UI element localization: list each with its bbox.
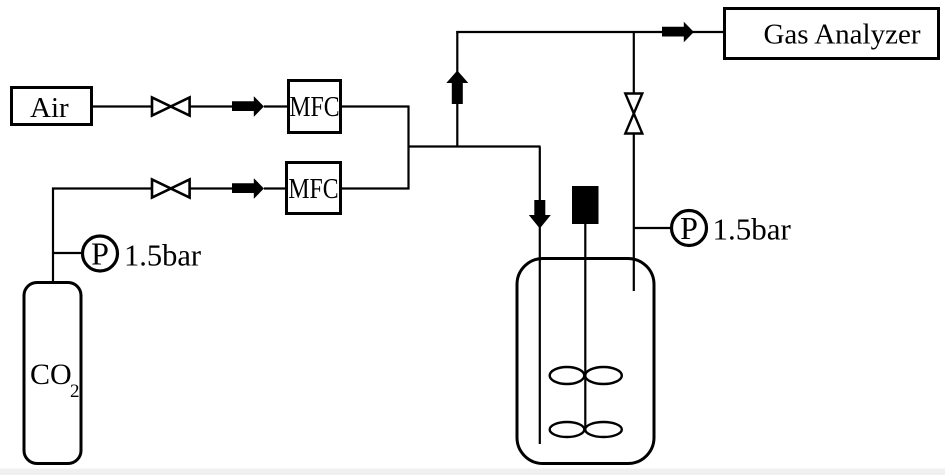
svg-text:MFC: MFC [289,91,339,122]
wire CO2 cylinder up [52,188,54,283]
valve V1 (air line) [152,98,190,116]
impeller upper [550,367,585,384]
flow arrow A5 (down, black) [529,200,551,229]
Air source box [12,88,92,125]
svg-text:1.5bar: 1.5bar [124,239,201,273]
valve V2 (CO2 line) [152,180,190,198]
pressure gauge P1 [83,236,118,271]
flow arrow A2 (black) [232,178,264,199]
wire A2 to MFC2 [264,187,287,189]
svg-text:Gas Analyzer: Gas Analyzer [763,19,920,51]
flow arrow A4 (up, black) [446,71,468,105]
svg-text:MFC: MFC [288,173,338,204]
junction vertical segment [407,106,409,190]
wire V1 to arrow A1 [190,105,234,107]
pressure gauge P1 connector [53,252,82,254]
stirrer shaft [584,224,586,430]
wire A1 to MFC1 [264,105,287,107]
reactor vessel [517,259,654,464]
sample line from header down [633,32,635,94]
svg-text:Air: Air [30,92,69,124]
valve V3 (vertical, sample line) [625,94,642,134]
analyzer header line [456,31,723,33]
pressure gauge P2 connector [634,227,671,229]
svg-text:P: P [680,210,698,246]
gas inlet dip tube [539,147,541,445]
wire MFC2 to junction [341,187,410,189]
wire Air to valve V1 [92,105,153,107]
junction horizontal line to reactor inlet [409,145,541,147]
stirrer motor (black block) [572,186,599,224]
wire CO2 horizontal to valve V2 [52,187,152,189]
flow arrow A1 (black) [232,96,264,117]
pressure gauge P2 [672,211,707,246]
wire MFC1 to junction riser [341,105,410,107]
flow arrow A3 (black, to analyzer) [662,22,694,43]
riser to analyzer header [456,31,458,148]
CO2 cylinder [24,283,81,464]
sample line below valve into vessel [633,134,635,292]
wire V2 to arrow A2 [190,187,234,189]
svg-text:1.5bar: 1.5bar [713,212,792,247]
MFC1 box [289,81,341,133]
scan artifact bottom strip [0,469,945,475]
svg-text:2: 2 [70,381,80,402]
MFC2 box [287,163,341,214]
svg-text:P: P [91,236,109,272]
Gas Analyzer box [725,9,939,59]
impeller lower [550,422,585,437]
svg-text:CO: CO [30,358,72,391]
